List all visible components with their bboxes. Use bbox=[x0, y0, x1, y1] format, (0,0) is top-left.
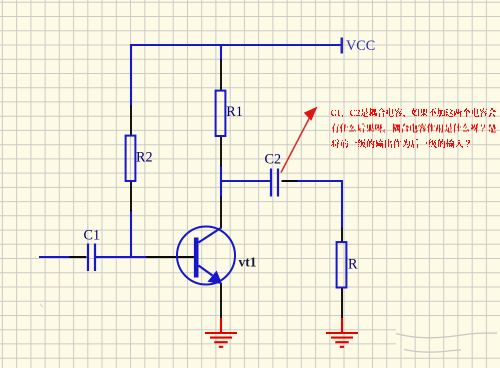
capacitor C1 bbox=[88, 244, 95, 272]
annotation text line 3 bbox=[331, 139, 470, 148]
wire R1 bottom to collector bbox=[220, 165, 222, 198]
pin R load bottom bbox=[341, 288, 343, 320]
pin R2 bottom bbox=[130, 181, 132, 212]
pin R load top bbox=[341, 228, 343, 243]
svg-text:R: R bbox=[348, 257, 358, 273]
pin R2 top bbox=[130, 106, 132, 137]
pin R1 top bbox=[220, 60, 222, 92]
annotation text line 2 bbox=[332, 124, 496, 133]
wire C1 to base node bbox=[96, 256, 147, 258]
svg-text:C2: C2 bbox=[265, 152, 282, 168]
wire input stub bbox=[39, 256, 71, 258]
transistor vt1 bbox=[177, 227, 235, 285]
wire R1 top bbox=[220, 44, 222, 61]
svg-text:vt1: vt1 bbox=[239, 255, 257, 270]
pin R1 bottom bbox=[220, 135, 222, 166]
power port VCC bbox=[340, 38, 343, 54]
wire C2 right bbox=[282, 180, 343, 182]
wire R2 top bbox=[130, 44, 132, 107]
ground (emitter) bbox=[205, 318, 237, 347]
annotation text line 1: C1, C2 are coupling capacitors; what happens without them bbox=[331, 108, 496, 117]
pin vt1 base bbox=[146, 256, 194, 258]
wire load R top bbox=[341, 180, 343, 229]
wire VCC rail bbox=[130, 44, 341, 46]
wire R2 bottom to base node bbox=[130, 211, 132, 257]
annotation arrow bbox=[281, 113, 312, 173]
resistor R1 bbox=[216, 91, 226, 136]
svg-text:VCC: VCC bbox=[346, 38, 375, 54]
svg-text:R2: R2 bbox=[136, 150, 153, 166]
ground (load R) bbox=[326, 318, 358, 347]
capacitor C2 bbox=[271, 169, 278, 197]
svg-text:R1: R1 bbox=[226, 104, 243, 120]
pin C1 left bbox=[70, 256, 87, 258]
resistor R (load) bbox=[337, 242, 347, 287]
pin vt1 emitter bbox=[220, 283, 222, 319]
resistor R2 bbox=[126, 136, 136, 181]
wire C2 left bbox=[220, 180, 270, 182]
pin vt1 collector bbox=[220, 197, 222, 229]
pin C2 right bbox=[282, 180, 298, 182]
svg-text:C1: C1 bbox=[84, 228, 101, 244]
